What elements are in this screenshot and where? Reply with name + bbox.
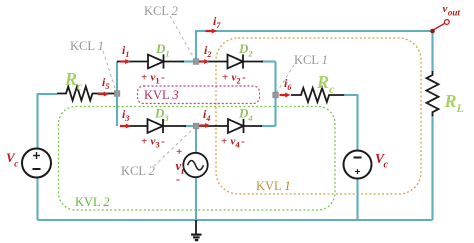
current arrow i2 [200, 59, 210, 64]
label vi with polarity [176, 146, 185, 186]
wire right Rc to Vc riser [344, 95, 358, 151]
wire bottom row left black [121, 125, 148, 127]
svg-text:KVL 3: KVL 3 [144, 88, 179, 102]
svg-text:KCL 2: KCL 2 [121, 164, 155, 178]
diode D2 [228, 54, 264, 68]
wire teal stub D1 to node [182, 60, 193, 62]
svg-text:KVL 1: KVL 1 [256, 179, 291, 193]
svg-text:D2: D2 [238, 41, 253, 59]
current arrow i7 [206, 29, 218, 34]
svg-text:i5: i5 [102, 75, 109, 91]
wire right bridge riser [274, 62, 276, 127]
svg-text:KCL 1: KCL 1 [294, 53, 328, 67]
wire top rail [196, 31, 433, 62]
svg-text:+: + [176, 146, 182, 158]
wire bottom row mid black [199, 125, 228, 127]
svg-text:-: - [176, 172, 180, 186]
wire teal stub D4 to right riser [260, 125, 276, 127]
node bottom (KCL 2) junction square [193, 123, 199, 129]
node top (KCL 2) junction square [193, 59, 199, 65]
current arrow i6 [280, 93, 291, 98]
resistor RL [427, 71, 439, 116]
source Vc left [22, 149, 51, 178]
diode D4 [228, 119, 262, 133]
wire right rail lower [431, 114, 433, 220]
wire top row left black [117, 61, 148, 63]
svg-text:KVL 2: KVL 2 [75, 195, 110, 209]
svg-text:i2: i2 [204, 43, 211, 59]
wire right Vc to bottom rail [356, 179, 358, 221]
source vi (AC) [183, 153, 207, 177]
node i5 junction square [114, 91, 120, 97]
resistor Rc left [57, 87, 117, 101]
diode D1 [148, 54, 184, 68]
svg-text:Vc: Vc [375, 151, 389, 171]
wire right rail upper [431, 31, 433, 72]
svg-text:D1: D1 [155, 41, 170, 59]
svg-text:i3: i3 [122, 107, 129, 123]
wire bottom rail [38, 219, 433, 221]
KCL leader line right [277, 65, 294, 92]
svg-text:KCL 2: KCL 2 [144, 4, 178, 18]
svg-text:i7: i7 [213, 14, 221, 30]
KCL leader line bottom [154, 128, 194, 166]
diode D3 [148, 119, 187, 133]
node i6 junction square [273, 92, 279, 98]
svg-text:+ v1-: + v1- [141, 72, 165, 86]
wire left edge lower [36, 178, 38, 221]
KVL 2 loop (green dashed) [59, 107, 336, 211]
current arrow i5 [98, 92, 109, 97]
svg-text:+ v4-: + v4- [221, 136, 245, 150]
KVL 1 loop (orange dashed) [216, 38, 421, 194]
wire left bridge riser [116, 62, 118, 127]
svg-text:D3: D3 [154, 106, 169, 124]
svg-text:Rc: Rc [316, 72, 335, 96]
vout terminal [430, 20, 449, 34]
wire left edge upper [38, 94, 58, 149]
svg-text:Vc: Vc [6, 150, 19, 170]
current arrow i3 [120, 124, 131, 129]
ground [191, 220, 201, 240]
svg-text:+ v2-: + v2- [222, 72, 246, 86]
wire mid riser lower to vi [195, 126, 197, 153]
svg-text:RL: RL [444, 91, 464, 115]
KCL leader line top [170, 16, 194, 58]
svg-text:vout: vout [443, 3, 461, 18]
wire teal stub D2 to right riser [261, 60, 276, 62]
KCL leader line left [103, 51, 116, 91]
wire top row mid black [199, 61, 228, 63]
resistor Rc right [291, 88, 344, 102]
svg-text:D4: D4 [238, 106, 253, 124]
current arrow i1 [120, 59, 131, 64]
svg-text:i4: i4 [203, 107, 210, 123]
svg-text:KCL 1: KCL 1 [70, 39, 104, 53]
wire teal stub D3 to node [184, 125, 193, 127]
KVL 3 loop (purple dashed) [138, 86, 260, 104]
source Vc right [344, 151, 372, 179]
svg-text:+ v3-: + v3- [141, 136, 165, 150]
current arrow i4 [200, 123, 211, 128]
svg-text:i1: i1 [122, 43, 129, 59]
svg-text:i6: i6 [284, 76, 291, 92]
wire vi to bottom rail [195, 177, 197, 220]
